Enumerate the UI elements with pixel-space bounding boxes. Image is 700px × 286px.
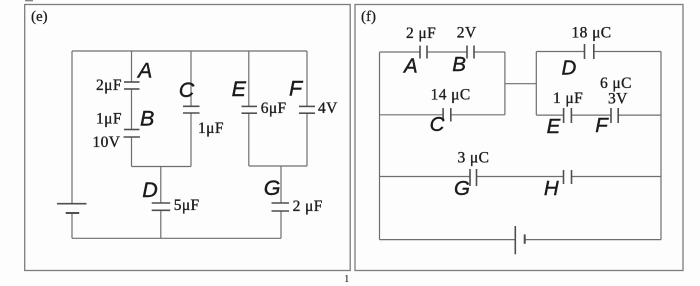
svg-text:(f): (f)	[361, 9, 376, 25]
svg-text:3V: 3V	[608, 91, 628, 108]
svg-text:6μF: 6μF	[261, 100, 287, 117]
svg-text:E: E	[547, 115, 561, 138]
svg-text:D: D	[562, 57, 577, 80]
svg-text:(e): (e)	[31, 9, 48, 25]
svg-text:1: 1	[344, 273, 350, 285]
svg-text:B: B	[452, 53, 466, 76]
svg-text:G: G	[454, 177, 470, 200]
svg-text:4V: 4V	[318, 100, 338, 117]
svg-text:1μF: 1μF	[96, 111, 122, 128]
svg-text:2 μF: 2 μF	[293, 198, 323, 215]
svg-text:3 μC: 3 μC	[458, 150, 490, 167]
svg-text:2μF: 2μF	[96, 77, 122, 94]
svg-text:10V: 10V	[93, 134, 121, 151]
svg-text:F: F	[289, 76, 304, 100]
svg-text:C: C	[179, 78, 195, 102]
svg-text:1μF: 1μF	[198, 120, 224, 137]
svg-text:6 μC: 6 μC	[600, 75, 632, 92]
svg-text:G: G	[264, 176, 281, 200]
svg-text:A: A	[402, 54, 418, 77]
svg-text:14 μC: 14 μC	[431, 87, 471, 104]
svg-text:2V: 2V	[457, 25, 477, 42]
svg-text:18 μC: 18 μC	[572, 25, 612, 42]
svg-text:E: E	[232, 77, 247, 101]
svg-text:1 μF: 1 μF	[553, 90, 583, 107]
svg-text:B: B	[140, 106, 154, 130]
svg-text:F: F	[595, 114, 609, 137]
svg-text:A: A	[136, 59, 152, 83]
svg-text:H: H	[544, 177, 559, 200]
svg-text:C: C	[430, 113, 445, 136]
svg-text:D: D	[142, 178, 158, 202]
svg-text:2 μF: 2 μF	[406, 25, 436, 42]
svg-text:5μF: 5μF	[174, 197, 200, 214]
